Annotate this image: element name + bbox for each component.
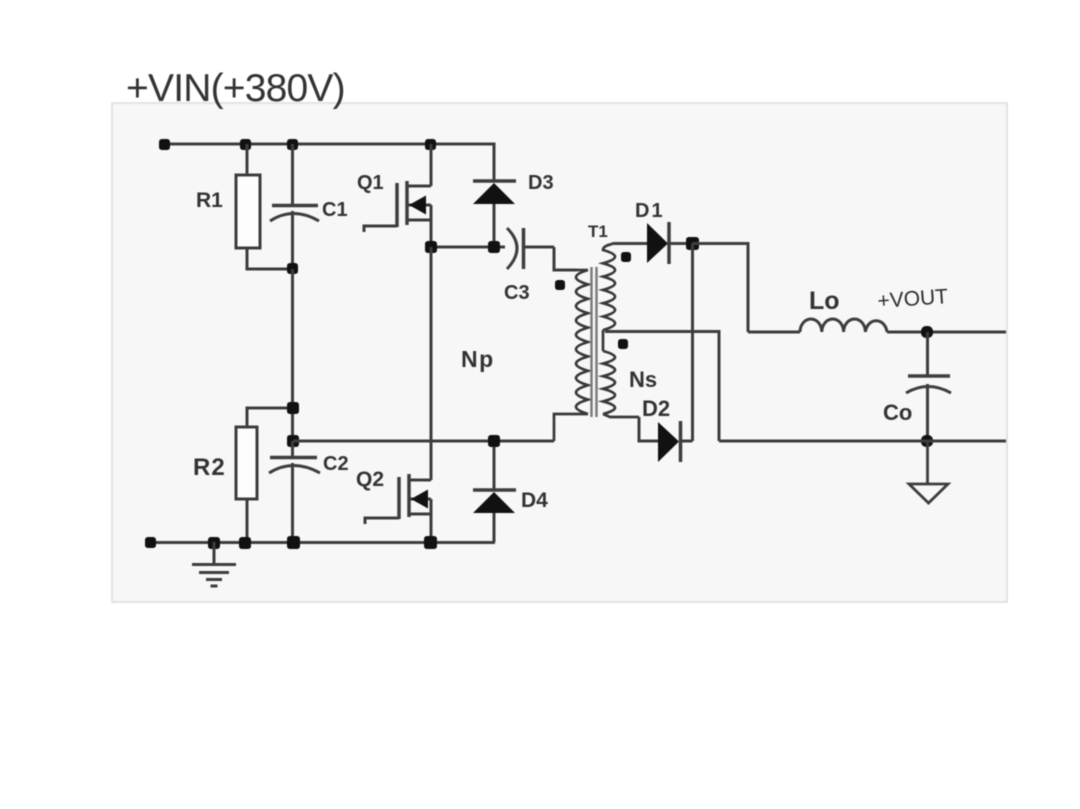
svg-text:Ns: Ns [629,367,657,392]
svg-text:T1: T1 [588,222,608,241]
svg-text:Co: Co [883,400,912,425]
svg-text:+VOUT: +VOUT [877,285,949,313]
svg-text:D2: D2 [642,396,670,421]
svg-text:Lo: Lo [809,287,840,315]
transformer T1 primary winding Np [554,270,588,441]
svg-text:C2: C2 [323,453,349,475]
node R1/C1 mid junction [287,263,298,274]
capacitor C3 [507,228,577,270]
wire output return [719,440,1006,443]
wire D1-D2 cathode tie [691,244,694,442]
wire top rail +VIN [164,143,494,146]
svg-text:Q1: Q1 [357,172,384,194]
node R2 bottom [239,537,251,549]
svg-text:C3: C3 [504,282,530,304]
node D4 cathode [488,435,500,447]
svg-text:+VIN(+380V): +VIN(+380V) [126,67,345,110]
svg-text:Q2: Q2 [356,468,384,491]
inductor Lo [748,319,1006,332]
node D3 anode [488,241,500,253]
node left end of top rail [159,139,170,150]
capacitor C2 [269,441,320,542]
node R2 tap [287,402,299,414]
diode D3 [473,144,516,247]
node ground tap [208,537,220,549]
svg-text:D4: D4 [521,489,548,512]
svg-text:R2: R2 [193,454,226,481]
wire bottom rail [150,541,495,544]
ground (input) [192,542,236,586]
node Vout / Co top [921,326,933,338]
svg-text:D3: D3 [528,172,554,194]
node left end bottom rail [145,537,156,548]
resistor R2 [236,408,291,542]
node Q2 source [424,536,437,549]
phase dot primary [555,280,565,290]
wire switch node [431,246,505,249]
ground (output) [909,441,948,503]
capacitor Co [906,332,951,441]
svg-text:C1: C1 [322,199,348,221]
diode D1 [612,222,692,264]
node C2 bottom [287,536,300,549]
schematic panel [112,103,1007,602]
phase dot secondary bottom [618,339,628,349]
phase dot secondary top [621,252,631,262]
wire secondary center tap [605,332,719,442]
node Co bottom [921,435,933,447]
transformer T1 secondary winding Ns (bottom half) [603,351,639,417]
svg-text:D1: D1 [635,200,665,222]
wire mid column [291,269,294,457]
wire primary bottom return [293,440,554,443]
svg-text:R1: R1 [196,189,223,212]
svg-text:Np: Np [461,346,495,372]
transistor Q1 (MOSFET) [364,144,431,247]
capacitor C1 [270,144,319,269]
resistor R1 [236,144,291,269]
wire D1 cathode to Lo corner [692,244,748,333]
transformer T1 core [592,267,597,417]
node D1 cathode [686,237,699,250]
diode D4 [473,441,516,542]
node Q1 drain top [425,139,436,150]
node C1 top [287,139,298,150]
node primary return tap [287,435,299,447]
diode D2 [639,417,693,462]
node Q1 source [425,241,437,253]
transistor Q2 (MOSFET) [365,247,431,542]
transformer T1 secondary winding Ns (top half) [603,244,615,351]
node R1 top [240,139,251,150]
